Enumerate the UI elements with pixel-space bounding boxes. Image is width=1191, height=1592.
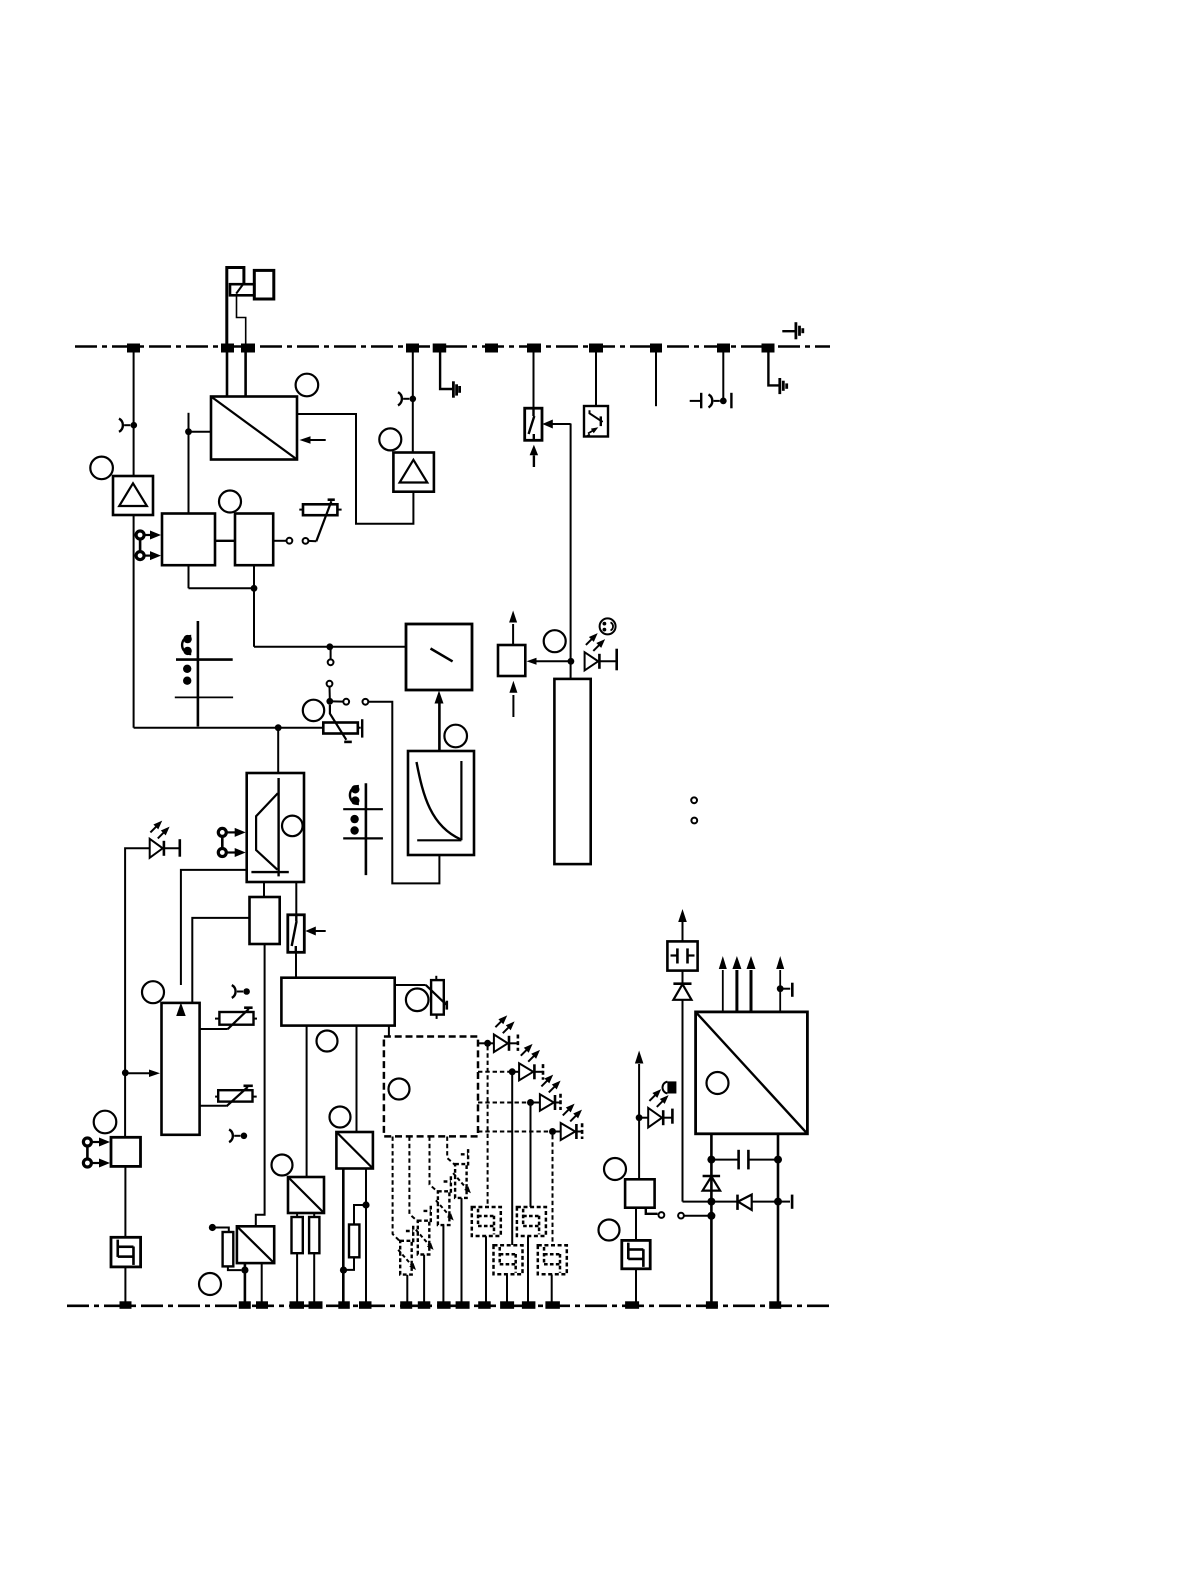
- LED D4 rays: [521, 1044, 540, 1062]
- connector face symbol: [600, 618, 616, 634]
- wire U10 to ECU: [388, 1026, 390, 1037]
- LED D1 rays: [150, 821, 169, 839]
- relay K5 box: [111, 1137, 141, 1166]
- switch S3: [326, 649, 333, 705]
- label circle 13: [330, 1107, 351, 1128]
- diode D9 (zener): [703, 1176, 721, 1191]
- bus terminal X11: [762, 344, 775, 353]
- wire ECU to B1 sensor: [393, 1137, 401, 1242]
- wire X4 stem: [412, 352, 414, 453]
- wire H2 to rail: [635, 1269, 637, 1302]
- terminal tap: [778, 1195, 792, 1209]
- amplifier U4 box: [247, 773, 304, 882]
- label circle 12: [317, 1031, 338, 1052]
- bus terminal X9: [650, 344, 662, 353]
- label circle 6 in U4: [282, 816, 303, 837]
- rail terminal Y8: [400, 1301, 412, 1309]
- label circle 1: [90, 457, 113, 480]
- wire U15 left stem: [707, 1134, 715, 1302]
- amplifier U2 box: [113, 476, 153, 515]
- rail terminal Y10: [437, 1301, 451, 1309]
- rail terminal Y7: [359, 1301, 372, 1309]
- wire ECU LED row2: [478, 1068, 519, 1075]
- wire B4 to rail: [461, 1198, 463, 1302]
- potentiometer R2: [323, 705, 362, 742]
- wire lamp feed up: [635, 1051, 644, 1180]
- wire U13 right stem: [261, 1263, 263, 1302]
- wire S4 to curve box: [368, 702, 439, 884]
- wire U12 right stem: [362, 1169, 369, 1303]
- buzzer H2 maze: [628, 1243, 643, 1267]
- curve U5 axes: [417, 761, 461, 840]
- rail terminal Y6: [338, 1301, 350, 1309]
- pressure switch S8: [538, 1245, 567, 1274]
- label circle 3: [379, 428, 401, 450]
- wire ECU to B2 sensor: [409, 1137, 417, 1222]
- resistor R3 tall box: [554, 679, 590, 864]
- arrow into U7 right: [527, 658, 571, 665]
- converter U13 box: [237, 1226, 274, 1263]
- rail terminal Y11: [456, 1301, 470, 1309]
- temp sensor B4: [453, 1149, 471, 1198]
- rail terminal Y13: [500, 1301, 514, 1309]
- control unit U10 box: [281, 978, 394, 1026]
- connector on W1: [119, 419, 137, 432]
- capacitor C1: [711, 1150, 778, 1170]
- switch S1 frame: [227, 268, 244, 347]
- arrow under F1: [530, 445, 539, 467]
- wire to S7 switch: [511, 1075, 513, 1245]
- wire B1 to rail: [406, 1275, 408, 1302]
- ground G2: [780, 378, 787, 394]
- wire into U9 arrow: [122, 1069, 160, 1077]
- wire U8 left out: [192, 918, 249, 1003]
- buzzer H1 box: [111, 1237, 141, 1267]
- input contacts to U4: [218, 828, 245, 857]
- LED D6 rays: [563, 1104, 582, 1122]
- wire to S8 switch: [552, 1135, 554, 1245]
- rail terminal Y3: [256, 1301, 268, 1309]
- rheostat R6: [426, 976, 447, 1019]
- rail terminal Y5: [309, 1301, 323, 1309]
- switch S4: [333, 699, 369, 705]
- label circle 15: [199, 1273, 221, 1295]
- wire ECU LED row4: [478, 1128, 561, 1135]
- curve box U5: [408, 751, 474, 855]
- wire S7 to rail: [506, 1275, 508, 1303]
- meter P1 box: [406, 624, 472, 690]
- wire U4 to U8: [263, 882, 265, 897]
- connector below R5: [229, 1129, 247, 1142]
- curve U5 curve: [417, 762, 461, 839]
- wire S1 to bus: [237, 295, 246, 343]
- wire ECU LED row1: [478, 1040, 494, 1047]
- U4 internal symbol: [251, 778, 288, 876]
- wire U10 to R6: [395, 984, 426, 986]
- wire X7 stem: [533, 352, 535, 408]
- arrow U15 out2: [732, 956, 741, 1012]
- potentiometer R1: [299, 500, 341, 542]
- rail terminal Y16: [625, 1301, 639, 1309]
- wire U4 to F2: [295, 882, 297, 915]
- arrow into U1: [300, 436, 326, 444]
- LED D3: [494, 1035, 518, 1053]
- resistor R7: [347, 1205, 367, 1270]
- rail terminal Y2: [239, 1301, 251, 1309]
- converter U1 box: [211, 397, 297, 460]
- wire to S1 switch: [487, 1046, 489, 1207]
- label circle 19: [599, 1220, 620, 1241]
- rail terminal Y17: [706, 1301, 718, 1309]
- wire dot to U4: [277, 728, 279, 773]
- wire D7 down: [682, 1000, 684, 1202]
- wire K2-K3: [215, 540, 235, 542]
- wire W1 horizontal: [134, 724, 324, 731]
- resistor R10 tap: [209, 1224, 229, 1232]
- switch S2 contacts: [287, 538, 309, 544]
- wire U12 left stem: [340, 1169, 347, 1303]
- wire cross link: [683, 1201, 738, 1203]
- relay K2 box: [162, 514, 215, 566]
- wire U1 out right: [297, 414, 413, 524]
- bus terminal X6: [485, 344, 498, 353]
- arrow into F2: [305, 927, 325, 936]
- arrow into F1: [542, 420, 570, 429]
- resistor R8: [292, 1213, 303, 1302]
- regulator U6 box: [584, 406, 608, 437]
- LED D8: [641, 1108, 672, 1128]
- wire LED D1 feed: [125, 848, 149, 1137]
- ground G1 (top right): [782, 322, 803, 339]
- wire X3 stem: [244, 352, 247, 397]
- input contacts to K2: [136, 531, 161, 561]
- arrow U7 up: [509, 611, 517, 646]
- wire U15 right stem: [774, 1134, 782, 1302]
- connector above R4: [232, 985, 250, 998]
- rail terminal Y4: [290, 1301, 305, 1309]
- LED D2 rays: [586, 633, 605, 651]
- bus terminal X4: [406, 344, 419, 353]
- wire X11 to ground: [768, 352, 779, 385]
- relay U8 box: [250, 897, 280, 944]
- rheostat R5: [215, 1086, 257, 1107]
- wire bus bar 30 (dash-dot): [75, 345, 830, 348]
- wire S6 to rail: [527, 1236, 529, 1302]
- label circle 8: [544, 630, 566, 652]
- label circle 18: [604, 1158, 626, 1180]
- wire B2 to rail: [423, 1255, 425, 1302]
- bus terminal X2: [221, 344, 234, 353]
- bus terminal X8: [589, 344, 603, 353]
- arrow into U7 bottom: [509, 681, 517, 717]
- wire U13 left stem: [241, 1263, 248, 1302]
- label circle 4: [219, 491, 241, 513]
- resistor R10: [223, 1232, 242, 1270]
- wire bus bar 31 (dash-dot): [67, 1305, 830, 1308]
- buzzer H2 box: [622, 1240, 650, 1268]
- rail terminal Y1: [120, 1301, 132, 1309]
- resistor R9: [309, 1213, 319, 1302]
- node stub with dot: [185, 413, 211, 514]
- label circle 16 in ECU: [389, 1079, 410, 1100]
- label circle 9: [142, 981, 164, 1003]
- wire U4 left down: [176, 870, 247, 1016]
- diode D7: [673, 971, 691, 1000]
- arrow U15 out1: [719, 956, 727, 1012]
- LED D5: [540, 1094, 561, 1111]
- wire to S6 switch: [530, 1106, 532, 1207]
- wire U2 down: [133, 515, 135, 728]
- wire S8 to rail: [551, 1275, 553, 1303]
- bus terminal X1: [127, 344, 140, 353]
- wire K3 out: [273, 540, 286, 542]
- actuator U7 box: [498, 645, 525, 676]
- spare contacts: [691, 797, 697, 823]
- temp sensor B3: [436, 1176, 454, 1225]
- photo detector: [662, 1081, 676, 1093]
- wire H1 to rail: [124, 1267, 126, 1302]
- wire X10 stem: [722, 352, 724, 401]
- rail terminal Y14: [522, 1301, 536, 1309]
- label circle 17 in U15: [707, 1072, 729, 1094]
- wire S5 to rail: [485, 1236, 487, 1302]
- rheostat R4: [215, 1008, 257, 1029]
- label circle 11: [406, 989, 429, 1012]
- capacitor box U14: [667, 941, 697, 970]
- connector group CG1: [175, 621, 233, 727]
- converter U12 box: [336, 1132, 373, 1169]
- wire ECU to B3 sensor: [430, 1137, 438, 1193]
- diode D10: [738, 1195, 779, 1210]
- input contacts to K5: [83, 1138, 110, 1168]
- wire B3 to rail: [442, 1225, 444, 1302]
- amplifier U3 box: [393, 453, 434, 492]
- converter U15 box: [696, 1012, 808, 1134]
- LED D3 rays: [495, 1015, 514, 1033]
- ground G3: [453, 381, 459, 397]
- wire U8 to U13: [256, 944, 265, 1226]
- switch S9: [646, 1208, 716, 1220]
- bus terminal X7: [527, 344, 541, 353]
- arrow U15 out4: [776, 956, 792, 1012]
- converter U11 box: [288, 1177, 324, 1213]
- relay K1 box: [254, 270, 273, 299]
- label circle 14: [272, 1155, 293, 1176]
- wire K3 bottom: [189, 565, 258, 591]
- control unit U9 box: [162, 1003, 200, 1135]
- LED D1: [150, 839, 180, 858]
- temp sensor B1: [398, 1226, 416, 1275]
- wire ECU to B4 sensor: [447, 1137, 455, 1166]
- wire F1 control line: [568, 424, 575, 679]
- rail terminal Y9: [418, 1301, 431, 1309]
- label circle 7: [444, 725, 467, 748]
- arrow U15 out3: [747, 956, 756, 1012]
- fuse F1: [525, 408, 542, 440]
- label circle 5: [303, 700, 324, 721]
- label circle 10: [94, 1111, 117, 1134]
- ECU N1 dashed box: [384, 1037, 478, 1137]
- wire X9 stub: [655, 352, 657, 406]
- label circle 2: [296, 374, 319, 397]
- wire X5 to ground: [440, 352, 453, 389]
- rail terminal Y15: [545, 1301, 560, 1309]
- relay K4 box: [625, 1179, 655, 1207]
- pressure switch S6: [517, 1207, 546, 1236]
- wire U9 rheostat top: [200, 1028, 228, 1030]
- LED D4: [519, 1063, 543, 1080]
- wire W1 bus to U2: [133, 352, 135, 476]
- wire X8 stem: [595, 352, 597, 406]
- wire K5 to H1: [124, 1166, 126, 1237]
- arrow curvebox to meter: [435, 691, 444, 752]
- wire U10 to U11: [306, 1026, 308, 1177]
- wire K3 to meter: [254, 588, 406, 650]
- wire K4 to H2: [635, 1208, 637, 1240]
- bus terminal X10: [717, 344, 730, 353]
- connector X10 plug: [690, 393, 732, 409]
- wire F2 to U10: [295, 952, 297, 978]
- fuse F2: [288, 915, 305, 953]
- wire X2 stem: [226, 352, 229, 397]
- rail terminal Y12: [478, 1301, 491, 1309]
- LED D6: [561, 1123, 582, 1140]
- connector on X4 stem: [398, 392, 416, 405]
- LED D2: [585, 649, 617, 671]
- wire U9 rheostat bottom: [200, 1105, 227, 1107]
- temp sensor B2: [416, 1206, 434, 1255]
- LED D5 rays: [541, 1075, 560, 1093]
- buzzer H1 maze: [118, 1240, 134, 1265]
- connector group CG2: [343, 783, 383, 875]
- pressure switch S5: [472, 1207, 501, 1236]
- wire U10 to U12: [356, 1026, 358, 1132]
- bus terminal X3: [241, 344, 255, 353]
- bus terminal X5: [433, 344, 447, 353]
- LED D8 rays: [649, 1089, 668, 1107]
- rail terminal Y18: [769, 1301, 781, 1309]
- arrow output up: [678, 909, 687, 941]
- wire ECU LED row3: [478, 1099, 540, 1106]
- relay K3 box: [235, 514, 273, 566]
- switch S1 contact box: [230, 284, 254, 295]
- pressure switch S7: [494, 1245, 523, 1274]
